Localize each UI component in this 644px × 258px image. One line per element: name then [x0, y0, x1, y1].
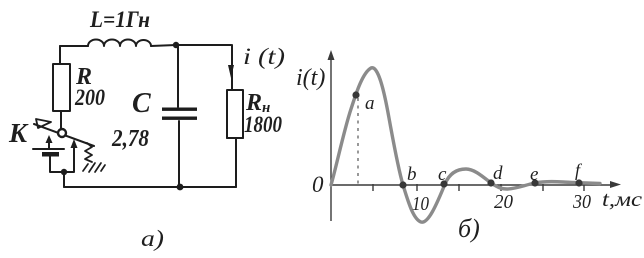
- svg-text:0: 0: [312, 172, 324, 197]
- svg-text:L=1Гн: L=1Гн: [89, 7, 150, 32]
- svg-text:a: a: [365, 93, 375, 114]
- svg-text:20: 20: [494, 191, 513, 213]
- svg-text:C: C: [132, 88, 151, 119]
- svg-text:1800: 1800: [244, 112, 282, 137]
- svg-text:f: f: [575, 160, 583, 180]
- svg-text:10: 10: [412, 193, 429, 215]
- svg-text:c: c: [438, 164, 447, 185]
- svg-text:i (t): i (t): [243, 44, 285, 69]
- svg-text:t,мс: t,мс: [602, 187, 643, 211]
- svg-text:K: K: [8, 118, 29, 148]
- svg-text:e: e: [530, 164, 538, 185]
- svg-text:2,78: 2,78: [111, 126, 149, 152]
- svg-text:i(t): i(t): [296, 65, 325, 91]
- svg-text:200: 200: [74, 85, 105, 110]
- svg-text:30: 30: [572, 191, 591, 213]
- svg-text:б): б): [458, 214, 480, 243]
- svg-text:d: d: [493, 163, 503, 184]
- svg-text:а): а): [141, 226, 164, 251]
- svg-text:b: b: [407, 164, 417, 185]
